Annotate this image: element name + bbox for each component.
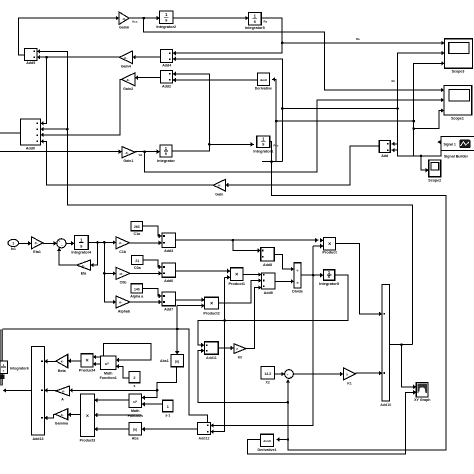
svg-text:du/dt: du/dt [260,78,267,82]
wire Divide out trunk x313.2 to Product in2 and Add12 in1 [301,274,323,276]
wire Add8 out to Divide in1 [274,254,294,269]
wire Add4 out to Gain4 [133,56,161,58]
wire branch to Add11 in2 via y402.3 [287,401,290,404]
svg-text:-K-: -K- [218,184,222,188]
wire Math Function out to Product3 in1 [94,399,129,401]
wire branch to Derivative1 input [287,438,290,441]
svg-text:Gain: Gain [215,192,223,196]
wire Add12 out to Abs to Product3 in3 [142,428,198,430]
wire Product2 out to Add9 in2 [218,281,261,304]
wire Signal Builder net vertical x397.5 to Scope3 in2 and Add inputs [398,53,445,156]
svg-text:Add7: Add7 [164,307,173,311]
sum circle [57,239,66,248]
wire Integrator5 out to trunk y320.5 Add11 in1 [198,275,348,345]
math function Math Function1 [101,356,116,370]
wire Product1 out to Add9 in1 [243,274,261,276]
abs block Abs1 [171,354,184,366]
constant Alpha a [131,284,142,293]
svg-text:-K-: -K- [119,300,123,304]
svg-text:Integrator: Integrator [157,159,175,163]
svg-text:×: × [235,272,238,278]
wire Add6 out to Product1 in1 [175,270,230,272]
svg-text:Add3: Add3 [164,249,173,253]
wire C0a elbow to Add6 in1 [143,260,162,267]
svg-text:-K-: -K- [119,241,123,245]
product Product2 [205,297,219,309]
source Signal Builder [441,137,474,151]
gain Beta [56,354,68,368]
wire Integrator2 to Integrator5 [173,17,249,19]
svg-text:Math: Math [104,371,112,375]
gain A [56,386,70,396]
wire Gain4 out to Add5 in2 and Add0 in1 [37,56,119,58]
math function Math Function [129,394,142,408]
svg-text:s: s [133,384,135,388]
sum Add6 [162,263,176,277]
wire X2 to sum [275,373,285,375]
svg-text:Add9: Add9 [264,291,273,295]
wire Product4 out to Beta to Add13 in1 [68,360,82,362]
svg-text:Acc: Acc [132,19,138,23]
constant C0a [132,255,143,264]
sum Add [379,140,390,152]
wire Gain1 to Integrator with tap to Scope1 in2 [135,151,160,153]
svg-text:s-1: s-1 [165,414,170,418]
integrator Integrator [160,145,172,157]
gain Alphab [116,296,130,308]
svg-text:Add4: Add4 [162,64,171,68]
wire Add11 out to K0 [218,347,234,349]
integrator Integrator4 [74,236,88,250]
svg-text:Derivative: Derivative [255,86,272,90]
gain Gain2 [122,73,135,86]
svg-text:|u|: |u| [175,360,179,364]
svg-text:-K-: -K- [60,360,64,364]
derivative block Derivative1 [260,434,273,446]
svg-text:Add6: Add6 [164,279,173,283]
svg-text:×: × [86,414,89,420]
svg-text:263: 263 [134,225,140,229]
wire branch x224.7 Product1 in2 and Add12 in2 [223,319,226,322]
sum Add7 [162,292,176,306]
svg-text:-K-: -K- [60,413,64,417]
svg-text:Function1: Function1 [100,376,117,380]
wire Alpha a elbow to Add7 in1 [143,288,162,296]
wire Add4 in2 from trunk x282 [173,59,283,162]
svg-text:Rc: Rc [392,79,396,83]
svg-text:-K-: -K- [122,17,126,21]
svg-text:Product1: Product1 [229,282,245,286]
gain Gain1 [122,147,135,158]
svg-text:Scope1: Scope1 [451,116,464,120]
svg-text:C1a: C1a [134,232,142,236]
sum Add13 [32,347,45,435]
wire Derivative input fed from vertical x276.2 [272,79,276,161]
wire const 1 to Math Function in2 [142,403,163,405]
wire y121.1 to Signal Builder vertical [276,120,414,122]
svg-text:Integrator2: Integrator2 [156,25,176,29]
integrator Integrator1 [257,136,270,148]
svg-text:-K-: -K- [34,241,38,245]
svg-text:uᵛ: uᵛ [105,361,109,366]
wire Product3 in2 stub [94,414,141,416]
svg-text:Add10: Add10 [380,403,391,407]
svg-text:A: A [61,398,64,402]
wire Add5 output up to Gain6 [19,18,119,55]
scope Scope3 [445,39,473,69]
product Product3 [81,394,95,437]
svg-text:Integrator5: Integrator5 [319,282,339,286]
svg-text:Vel: Vel [139,153,143,157]
constant X2 [261,367,275,379]
sum Add3 [162,233,176,248]
svg-text:Add0: Add0 [26,146,35,150]
svg-text:Gain4: Gain4 [121,65,131,69]
svg-text:Product: Product [322,251,337,255]
sum Add8 [261,248,275,262]
integrator Integrator2 [160,11,173,24]
svg-text:C0a: C0a [134,266,142,270]
svg-text:Derivative1: Derivative1 [258,448,277,452]
svg-text:Abs: Abs [132,436,139,440]
constant 2 [129,372,140,383]
svg-text:×: × [328,241,331,247]
svg-text:Function: Function [128,414,143,418]
svg-text:-K-: -K- [124,56,128,60]
svg-text:Integrator5: Integrator5 [245,26,265,30]
svg-text:2: 2 [133,376,135,380]
wire Gain out to Add0 in4 [41,141,214,185]
wire A out to Add13 in2 [44,389,56,391]
wire vertical x67.3 Add5 in1 / Add0 in2 / long return y204.8 [37,51,412,344]
svg-text:Add13: Add13 [33,437,44,441]
svg-text:Abs1: Abs1 [160,359,169,363]
wire Abs1 out down to A gain and Math Function in1 [142,367,177,398]
svg-text:Product3: Product3 [80,439,96,443]
svg-text:Eta1: Eta1 [33,250,41,254]
wire long input from left edge to Gain1 [0,151,122,153]
sum Add2 [160,70,172,83]
scope XY Graph [416,382,428,397]
svg-text:Gamma: Gamma [55,422,69,426]
svg-text:In1: In1 [11,247,16,251]
wire Product3 out to Gamma to Add13 in3 [68,414,81,416]
integrator Integrator5 lower [323,270,334,281]
wire Add2 out to Gain2 then Add0 in3 [135,77,161,79]
gain Eta feedback [77,260,91,270]
svg-text:Alphab: Alphab [118,309,131,313]
svg-text:Integrator6: Integrator6 [10,366,29,370]
sum circle X [285,370,294,379]
wire junction y161.7 segment [262,161,282,163]
wire Derivative1 out loop to XY Graph in2 [248,392,417,454]
svg-text:1: 1 [12,242,14,246]
inport In1 [8,239,19,246]
svg-text:.15: .15 [119,272,123,276]
mux bar at left edge [0,330,3,385]
wire Ha from mux to Abs1 and Add12 top [3,329,208,422]
wire Add13 out to mux [3,389,32,391]
wire Add9 out to Divide in2 [275,280,294,282]
svg-text:XY Graph: XY Graph [414,398,430,402]
svg-text:uᵛ: uᵛ [133,399,137,404]
wire Integrator1 out trunk [270,142,446,450]
wire Add7 out to Product2 in1 [175,299,204,301]
svg-text:Add5: Add5 [26,61,35,65]
svg-text:14.3: 14.3 [264,372,271,376]
wire vertical x413.7 to Scope3 in3 / Scope1 in3 [414,63,445,156]
wire Add3 out to Product in1 and Add8 in1 [175,239,318,241]
integrator Integrator5 [249,12,262,25]
svg-text:Scope3: Scope3 [452,70,465,74]
wire Scope2 branch [420,155,423,158]
wire sum to X1 gain [293,373,343,375]
gain K0 [234,344,246,354]
gain Gain [213,179,225,191]
wire C1a elbow to Add3 in1 [143,226,162,236]
svg-text:Alpha a: Alpha a [130,294,144,298]
wire Alphab to Add7 in2 [130,301,162,303]
svg-text:Product2: Product2 [203,311,219,315]
svg-text:Integrator1: Integrator1 [253,149,273,153]
gain Eta1 [31,237,43,249]
scope Scope1 [444,85,472,115]
wire Integrator5 out, branch to Scope3 in1 and Add4 in1 [173,18,282,53]
svg-text:Math: Math [131,409,139,413]
small block below Integrator6 [0,374,4,379]
constant 1 [162,400,173,412]
wire Add0 output to left edge [0,132,20,134]
abs block Abs [129,423,142,435]
svg-text:C1b: C1b [119,250,127,254]
gain Gamma [55,409,68,420]
svg-text:K1: K1 [347,382,352,386]
svg-text:+: + [290,375,292,379]
svg-text:×: × [85,358,88,364]
wire branch column x104.3 to C0b and Alphab [104,242,116,302]
svg-text:Add: Add [381,154,388,158]
gain X1 [343,368,355,380]
wire Gain6 to Integrator2 with branch to Scope1 in1 [129,17,160,19]
svg-text:-K-: -K- [62,390,66,394]
svg-text:Product4: Product4 [79,368,96,372]
wire Integrator out up to Add2 in1 and right to Integrator1 [172,74,209,151]
wire Product out to Add10 in1 [336,244,382,314]
svg-text:Integrator4: Integrator4 [71,251,92,255]
sum Add5 [24,49,37,61]
wire Derivative out to Add2 in2 [173,79,258,81]
svg-text:1: 1 [167,405,169,409]
constant C1a [131,221,142,230]
svg-text:C0b: C0b [120,280,128,284]
svg-text:140: 140 [134,287,140,291]
svg-text:K0: K0 [238,355,243,359]
wire loop Math Function1 top to its in1 [104,343,152,360]
svg-text:-K-: -K- [125,151,129,155]
wire K0 out up to Add9 in3 [246,288,261,349]
svg-text:-K-: -K- [126,78,130,82]
sum Add12 [198,422,211,434]
svg-text:21: 21 [135,259,139,263]
product Product [323,238,335,250]
wire trunk y108.5 to vertical x397.5 [282,108,397,110]
svg-text:Gain1: Gain1 [123,159,133,163]
svg-text:Signal Builder: Signal Builder [444,154,469,158]
wire C0b to Add6 in2 [130,272,162,274]
svg-text:X2: X2 [265,381,269,385]
svg-text:Add8: Add8 [263,263,272,267]
wire Integrator4 out with feedback via Eta [88,241,116,243]
wire In1 to Eta1 to sum to Integrator4 [19,242,32,244]
gain Gain4 [119,51,132,64]
wire constant 2 to Math Function1 in2 [116,366,129,378]
divide block Divide [294,263,301,288]
svg-text:Signal 1: Signal 1 [444,143,456,147]
gain Gain6 [119,12,129,24]
svg-text:Gain2: Gain2 [123,87,133,91]
svg-text:|u|: |u| [133,428,137,432]
svg-text:Add11: Add11 [206,356,217,360]
svg-text:Ra: Ra [264,20,268,24]
gain C0b [116,267,130,279]
wire branch up to Product2 in2 [176,306,178,329]
product Product4 [81,354,93,367]
wire Add10 out to XY Graph in1 [389,344,412,346]
svg-text:Ra: Ra [356,37,360,41]
wire Math Function1 outputs to Product4 [93,356,101,358]
sum Add9 [262,273,276,289]
svg-text:+: + [287,373,289,377]
sum Add0 [20,119,40,145]
svg-text:Divide: Divide [292,289,303,293]
mux Add10 [382,285,389,401]
sum Add4 [161,50,173,63]
wire Add out to Gain [225,146,379,185]
svg-text:Add2: Add2 [162,84,171,88]
svg-text:-K-: -K- [81,264,85,268]
scope Scope2 [429,160,441,177]
svg-text:×: × [210,301,213,307]
product Product1 [230,268,243,281]
gain C1b [116,237,129,249]
integrator Integrator6 [0,361,8,374]
sum Add11 [204,342,218,355]
svg-text:du/dt: du/dt [263,439,270,443]
svg-text:Beta: Beta [58,369,67,373]
svg-text:Scope2: Scope2 [428,178,441,182]
svg-text:Add12: Add12 [199,437,210,441]
derivative block Derivative [258,73,270,85]
svg-text:Gain6: Gain6 [119,26,129,30]
wire C1b to Add3 in2 [129,242,161,244]
wire X1 out to Add10 in2 [356,372,383,374]
